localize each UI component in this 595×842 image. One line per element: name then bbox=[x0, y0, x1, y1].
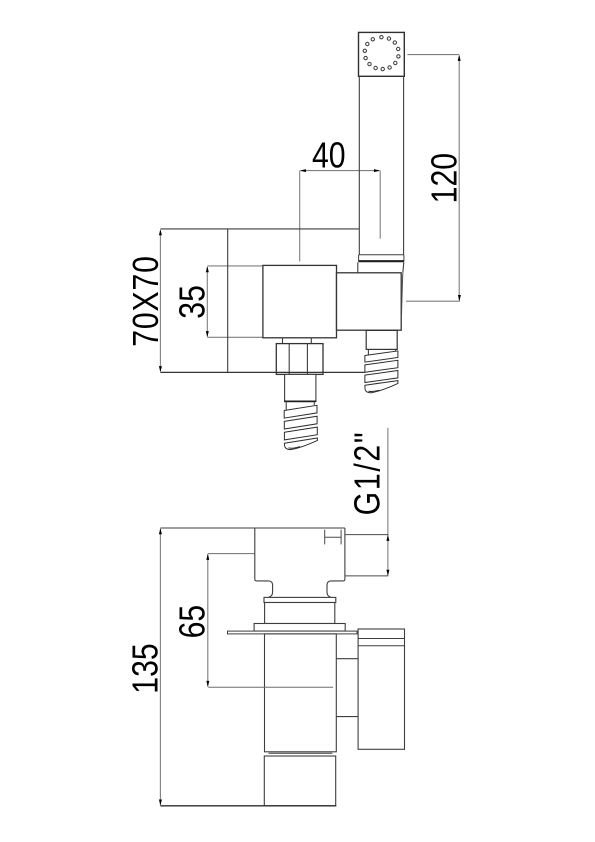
dimension 120 line bbox=[406, 55, 460, 302]
dimension G1/2 line bbox=[387, 428, 389, 576]
dimension 70X70 line bbox=[159, 231, 161, 372]
arrowheads bbox=[159, 55, 461, 806]
G1/2 thread symbol bbox=[325, 530, 341, 545]
bottom hose cylinder bbox=[285, 374, 316, 401]
bottom edge / 135 extension bbox=[160, 805, 336, 807]
stubs between square and nut bbox=[283, 338, 312, 344]
holder bracket arm bbox=[336, 659, 358, 717]
svg-text:65: 65 bbox=[173, 605, 213, 639]
dimension 35 line bbox=[207, 266, 263, 337]
dimension 65 line bbox=[208, 554, 255, 687]
shower holder block bbox=[337, 273, 402, 330]
svg-text:135: 135 bbox=[126, 643, 166, 693]
dimension 40 line bbox=[300, 171, 381, 262]
shower handle bbox=[359, 76, 403, 255]
svg-text:G1/2": G1/2" bbox=[348, 431, 388, 516]
separation band bbox=[269, 752, 333, 754]
svg-text:70X70: 70X70 bbox=[126, 255, 166, 347]
svg-text:120: 120 bbox=[425, 153, 465, 203]
shower head body bbox=[359, 32, 405, 76]
handle ferrule bbox=[359, 255, 404, 261]
holder side view bbox=[358, 629, 404, 749]
collar body bbox=[265, 603, 335, 624]
wall flange bar bbox=[228, 631, 358, 634]
escutcheon bbox=[254, 624, 345, 632]
svg-text:35: 35 bbox=[173, 285, 213, 319]
hex nut under valve bbox=[276, 344, 323, 375]
shower head spray nozzle ring bbox=[363, 36, 400, 71]
lower main body bbox=[265, 634, 337, 752]
collar ring bbox=[264, 597, 336, 602]
neck between block and collar bbox=[269, 581, 331, 598]
dimension 135 line bbox=[159, 529, 161, 805]
handle cone inside holder bbox=[402, 273, 403, 316]
bottom hose spiral bbox=[284, 402, 317, 449]
wall plate bottom edge bbox=[160, 371, 364, 373]
hose nut under holder bbox=[366, 330, 397, 349]
hose neck under holder bbox=[368, 349, 395, 356]
wall plate 70x70 bbox=[160, 229, 359, 373]
handle lower taper bbox=[358, 262, 404, 273]
65 reference mid line bbox=[208, 686, 333, 688]
right hose spiral bbox=[365, 351, 398, 393]
valve body square (35) bbox=[263, 265, 337, 337]
bottom cap bbox=[264, 756, 335, 806]
svg-text:40: 40 bbox=[312, 136, 346, 176]
G1/2 outlet silhouette bbox=[346, 535, 389, 576]
valve block side view bbox=[160, 528, 345, 581]
